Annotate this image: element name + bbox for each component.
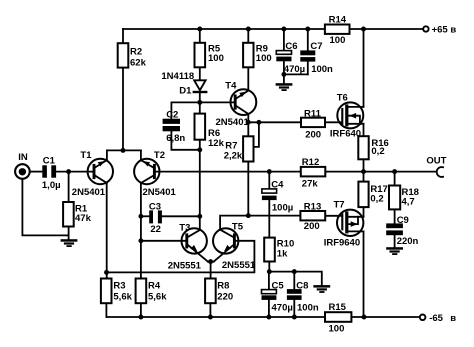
svg-text:R14: R14 [329,15,347,26]
svg-text:R4: R4 [148,281,161,292]
wire: C2 bottom to R6 bottom node [171,131,199,150]
svg-text:D1: D1 [179,85,192,96]
resistor R2 [118,43,147,68]
wire: C9 bottom to ground [394,235,396,247]
wire: R7 wiper tap [254,122,259,147]
node: R7 wiper on gate row [256,120,261,125]
ground (input) [61,239,78,247]
wire: T5 collector row to R13 [220,216,300,230]
wire: R13 to T7 gate [325,215,341,217]
resistor R8 [205,279,233,304]
svg-text:200: 200 [305,130,321,141]
svg-text:100: 100 [256,53,272,64]
svg-text:R15: R15 [329,302,347,313]
svg-text:220: 220 [217,291,233,302]
svg-text:220n: 220n [397,236,419,247]
svg-text:C4: C4 [271,179,284,190]
wire: T2 collector column to R4 [140,183,142,279]
svg-text:470µ: 470µ [272,303,293,314]
svg-text:в: в [450,25,456,36]
resistor R13 [300,202,325,232]
svg-text:2N5551: 2N5551 [168,261,202,272]
svg-text:27k: 27k [302,178,319,189]
svg-text:C3: C3 [149,202,161,213]
wire: T6 drain column to +65V rail [363,29,365,107]
wire: output node (R12 to OUT terminal) [325,171,435,173]
wire: T5 base loop to T1 collector node [106,241,254,273]
svg-text:+65: +65 [432,25,449,36]
terminal -65 V [420,313,456,324]
svg-text:C1: C1 [43,156,56,167]
svg-text:2N5401: 2N5401 [143,187,177,198]
node: T3/T5 emitters [208,259,213,264]
svg-text:100: 100 [329,324,345,335]
wire: T3/T5 emitter junction [208,261,214,263]
resistor R14 [325,15,350,46]
wire: T1/T2 common emitter bus [107,149,141,151]
wire: C4 bottom to R10 top [268,200,270,238]
svg-text:C2: C2 [166,110,178,121]
wire: R2 top lead from rail [122,29,124,43]
svg-text:C8: C8 [296,281,308,292]
svg-text:C7: C7 [310,41,322,52]
wire: R9 top lead from rail [247,29,249,43]
resistor R3 [101,279,133,304]
wire: R1 bottom to ground [68,227,70,240]
wire: C6 bottom to ground node [283,61,285,83]
mosfet T6 (IRF640) [330,93,364,140]
resistor R17 [358,182,387,208]
wire: feedback node (T2 base to R12) [156,171,301,173]
svg-text:100: 100 [208,53,224,64]
transistor T1 (2N5401) [72,150,113,198]
wire: R5 top lead from rail [199,29,201,43]
node: C3 right / T3 collector [197,214,202,219]
svg-text:4,7: 4,7 [402,196,415,207]
svg-text:0,2: 0,2 [370,194,383,205]
node: C4/R10 to feedback [267,169,272,174]
svg-text:T1: T1 [80,150,92,161]
svg-text:R11: R11 [304,109,322,120]
wire: IN shield to ground junction [22,179,68,236]
node: R7 bottom / T5 collector / R13 [246,213,251,218]
node: C2 bottom / R6 bottom [197,147,202,152]
node: D1 cathode / T4 base [197,100,202,105]
svg-text:200: 200 [304,221,320,232]
svg-text:T6: T6 [337,93,348,104]
wire: R2 bottom lead to T1/T2 emitter bus [122,68,124,151]
svg-text:R2: R2 [130,47,142,58]
wire: output node to R18 top [394,172,396,186]
wire: T4 collector node to R11 (T6 gate row) [248,121,301,123]
node: R16/R17 on output [361,169,366,174]
terminal +65 V [423,25,456,36]
resistor R6 [195,114,225,149]
node: C5 bottom on -65V rail [266,315,271,320]
svg-text:в: в [450,313,456,324]
svg-text:C6: C6 [285,41,297,52]
resistor R12 [301,157,326,189]
svg-text:12k: 12k [208,138,225,149]
wire: -65V rail (right of R15 to terminal) [351,316,418,318]
capacitor C5 (electrolytic 470µ) [262,281,293,314]
svg-text:T3: T3 [179,222,190,233]
resistor R16 [358,136,389,159]
svg-text:R3: R3 [113,281,125,292]
wire: output node to R17 top [363,172,365,182]
input terminal IN [15,152,30,179]
wire: R5 bottom to D1 anode [199,67,201,79]
svg-text:100: 100 [330,35,346,46]
svg-text:100n: 100n [311,64,333,75]
wire: T6 source to R16 [363,124,365,136]
node: input / R1 top [66,169,71,174]
wire: C8 top lead [293,272,295,290]
wire: C1 to T1 base [56,171,92,173]
node: R5 top on +65V rail [197,27,202,32]
resistor R1 [63,202,91,227]
svg-text:IN: IN [18,152,28,163]
svg-text:IRF640: IRF640 [330,129,361,140]
node: C8 top on ground bus [292,269,297,274]
resistor R4 [136,279,168,304]
mosfet T7 (IRF9640) [324,200,364,249]
svg-text:C5: C5 [272,281,285,292]
wire: C6/C7 bottom link [284,73,308,75]
svg-text:1k: 1k [277,248,288,259]
capacitor C4 (electrolytic 100µ) [262,179,293,213]
wire: C7 bottom lead [307,62,309,75]
svg-text:T4: T4 [225,81,237,92]
node: T7 drain on -65V rail [362,315,367,320]
wire: C3 right to T3 collector column [162,215,200,217]
capacitor C7 (100n) [300,41,333,75]
svg-text:-65: -65 [429,313,443,324]
svg-text:47k: 47k [75,213,92,224]
wire: ground bus C5/C8 to ground symbol [269,272,322,286]
wire: R17 bottom to T7 source [363,207,365,217]
node: T2 collector / C3 left [138,214,143,219]
node: C8 bottom on -65V rail [292,315,297,320]
wire: +65V supply rail (left of R14) [123,28,325,30]
wire: R11 to T6 gate [325,121,341,123]
wire: R3 bottom lead [105,303,107,317]
svg-text:2N5551: 2N5551 [222,260,256,271]
capacitor C1 [42,156,61,191]
wire: T2 collector to C3 left [141,215,149,217]
wire: -65V rail (left of R15) [106,316,325,318]
ground (C5/C8 bus) [313,285,330,293]
svg-text:T7: T7 [334,200,345,211]
wire: R8 bottom lead [209,303,211,317]
wire: C6 top lead from rail [283,29,285,50]
node: R9 top on +65V rail [246,27,251,32]
wire: C8 bottom to -65V rail [293,300,295,317]
svg-text:2,2k: 2,2k [224,150,243,161]
wire: T1 collector column to R3 [106,183,108,279]
wire: input node down to R1 [68,172,70,202]
wire: C4 top lead to feedback node [268,172,270,189]
resistor R9 [243,43,272,68]
svg-text:5,6k: 5,6k [113,291,132,302]
ground (C6/C7 decoupling) [276,83,293,91]
svg-text:22: 22 [150,224,161,235]
node: T4 collector / R7 top [246,120,251,125]
wire: R4 bottom lead [140,303,142,317]
wire: T3 base wire [141,240,186,242]
diode D1 (1N4118) [161,71,207,96]
wire: IN terminal to C1 [31,171,43,173]
wire: C5 top lead [268,272,270,290]
wire: T4 collector down to R7 [247,114,249,136]
svg-text:100n: 100n [297,303,319,314]
svg-text:2N5401: 2N5401 [72,187,106,198]
node: R10 bottom / C5 top [267,269,272,274]
node: R8 bottom on -65V rail [208,315,213,320]
transistor T4 (2N5401) [216,81,257,129]
transistor T5 (2N5551, mirrored) [213,221,256,270]
wire: C7 top lead from rail [307,29,309,50]
transistor T2 (2N5401, mirrored) [134,150,176,198]
resistor R10 [264,238,294,262]
wire: R6 bottom column down to T3 collector [199,140,201,230]
wire: C5 bottom to -65V rail [268,300,270,317]
resistor R11 [301,109,325,141]
wire: +65V supply rail (right of R14 to terminal) [350,28,423,30]
node: T2 collector / T3 base [138,238,143,243]
svg-text:470µ: 470µ [284,64,305,75]
preset R7 (2,2k with wiper tap) [224,136,254,161]
resistor R15 [325,302,351,335]
resistor R5 [195,43,224,68]
svg-text:R8: R8 [217,281,229,292]
wire: D1 cathode to node D1/R6 [199,92,201,113]
ground (C9) [386,247,403,255]
svg-text:1,0µ: 1,0µ [42,180,61,191]
node: C7 top on +65V rail [305,27,310,32]
node: C6 top on +65V rail [281,27,286,32]
wire: T1 emitter lead [106,150,108,160]
svg-text:T2: T2 [154,150,165,161]
node: C6/C7 ground link [281,72,286,77]
svg-text:5,6k: 5,6k [148,291,167,302]
transistor T3 (2N5551) [168,222,208,271]
resistor R18 [389,186,419,210]
node: R2 to emitter bus [121,148,126,153]
svg-text:OUT: OUT [426,155,446,166]
wire: R7 bottom column to T5 collector node [247,162,249,216]
svg-text:0,2: 0,2 [371,146,384,157]
svg-text:1N4118: 1N4118 [161,71,194,82]
svg-text:62k: 62k [130,57,147,68]
wire: R18 bottom to C9 [394,209,396,223]
svg-text:6,8n: 6,8n [166,133,185,144]
capacitor C6 (electrolytic 470µ) [276,41,305,75]
capacitor C9 (220n) [386,215,418,247]
svg-text:R13: R13 [304,202,321,213]
capacitor C8 (100n) [287,281,319,314]
wire: R16 bottom to output node [363,159,365,171]
svg-text:2N5401: 2N5401 [216,117,250,128]
terminal OUT [426,155,446,177]
node: R4 bottom on -65V rail [138,315,143,320]
wire: bias node to T4 base [171,102,233,118]
capacitor C2 [163,110,186,144]
wire: emitter junction down to R8 [210,262,212,279]
wire: T2 emitter lead [140,150,142,160]
svg-text:T5: T5 [232,221,244,232]
node: T1 collector / R3 / T5 base bus [104,270,109,275]
svg-text:C9: C9 [397,215,409,226]
svg-text:R12: R12 [302,157,319,168]
wire: R10 bottom to ground bus [268,262,270,272]
wire: T7 drain column to -65V rail [363,231,365,317]
svg-text:100µ: 100µ [272,203,293,214]
svg-text:IRF9640: IRF9640 [324,238,360,249]
capacitor C3 [149,202,162,235]
node: T6 drain on +65V rail [361,27,366,32]
node: R18 top on output [392,169,397,174]
wire: R9 bottom to T4 emitter [247,67,249,90]
